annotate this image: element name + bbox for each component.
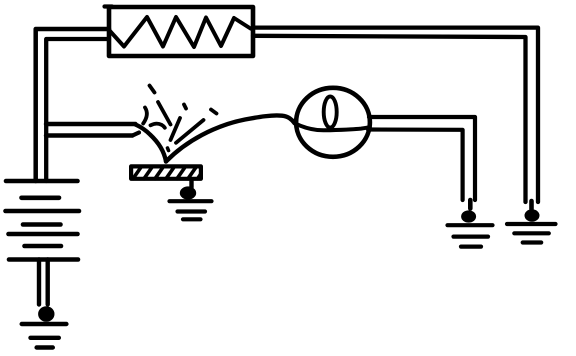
lamp L1 filament loop	[324, 96, 337, 127]
spark ray: small smile curve	[151, 124, 165, 128]
lamp L1 envelope circle	[296, 88, 370, 157]
resistor R1 zigzag element	[110, 17, 251, 47]
node: battery ground junction dot	[38, 306, 54, 322]
node: plate ground junction dot	[180, 186, 196, 199]
battery B1 plates	[6, 181, 80, 260]
wire: resistor left to top-left corner, outer line	[36, 29, 109, 181]
node: lamp ground junction dot	[461, 210, 476, 222]
wire: spark gap to lamp, curved lead	[166, 115, 295, 161]
wire: plate ground stub	[189, 181, 193, 188]
spark ray: far dash upper-right	[211, 110, 217, 114]
wire: resistor left to top-left corner, inner line	[46, 39, 109, 181]
wire: battery to ground, right line	[46, 260, 50, 305]
ground symbol below lamp wires	[448, 225, 493, 246]
spark-gap electrode curve	[133, 125, 167, 162]
node: right ground junction dot	[525, 209, 540, 221]
spark ray: speck	[184, 105, 186, 109]
wire: lamp to right corner, upper line	[369, 117, 475, 200]
ground symbol at far right	[507, 224, 556, 243]
spark ray: long upper-left ray	[158, 102, 171, 125]
spark ray: short tick upper-left	[150, 86, 155, 93]
spark-gap plate (hatched electrode)	[131, 166, 201, 178]
wire: resistor right to top-right corner, outer line	[253, 28, 538, 202]
wire: horizontal branch to spark gap, upper line	[46, 122, 136, 126]
spark ray: upper-right ray	[176, 120, 204, 143]
wire: horizontal branch to spark gap, lower line	[46, 133, 133, 137]
spark ray: tiny speck near contact	[168, 148, 169, 151]
lamp L1 filament crossing line	[295, 123, 370, 130]
wire: resistor right to top-right corner, inner line	[253, 36, 526, 202]
wire: right ground stem	[529, 201, 534, 209]
ground symbol below spark plate	[170, 201, 212, 219]
wire: lamp ground stem	[468, 200, 473, 209]
spark ray: small arc left	[143, 108, 147, 124]
ground symbol below battery	[22, 324, 67, 348]
wire: battery to ground, left line	[37, 260, 41, 305]
wire: lamp to right corner, lower line	[368, 130, 463, 201]
spark ray: steep ray above contact	[171, 118, 181, 140]
resistor R1 body box	[105, 7, 254, 57]
